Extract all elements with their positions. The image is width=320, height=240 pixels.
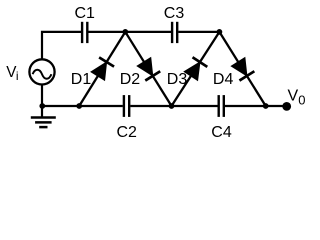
wire top-left from source to C1	[42, 32, 81, 59]
wire source bottom to ground node	[41, 85, 43, 106]
wire bottom rail C2 to C4 through node C	[130, 105, 217, 107]
diode D1	[79, 32, 125, 106]
svg-text:D3: D3	[167, 71, 188, 88]
svg-text:C3: C3	[164, 5, 185, 22]
svg-text:D1: D1	[71, 71, 92, 88]
capacitor C4	[219, 95, 224, 117]
svg-text:V: V	[288, 88, 299, 105]
ground	[31, 118, 56, 128]
wire top rail C3 to node B	[178, 31, 219, 33]
wire top rail C1 to C3 through node A	[88, 31, 171, 33]
diode D4	[219, 32, 265, 106]
wire bottom rail C4 to output terminal	[225, 105, 287, 107]
wire ground stub	[41, 106, 43, 117]
capacitor C3	[172, 22, 177, 43]
svg-text:0: 0	[298, 93, 305, 108]
svg-text:C2: C2	[117, 124, 138, 141]
svg-text:D2: D2	[120, 71, 141, 88]
capacitor C1	[82, 22, 87, 43]
ground junction dot	[39, 103, 45, 109]
svg-text:D4: D4	[213, 71, 234, 88]
output terminal dot	[282, 102, 291, 111]
node bottom junction dot B1	[76, 103, 82, 109]
wire bottom rail ground node to C2	[42, 105, 123, 107]
diode D2	[125, 32, 171, 106]
capacitor C2	[124, 95, 129, 117]
node bottom junction dot B2	[169, 103, 175, 109]
AC source Vi	[29, 59, 54, 84]
node B junction dot top rail	[217, 29, 223, 35]
svg-text:C4: C4	[211, 124, 232, 141]
node bottom junction dot B3	[263, 103, 269, 109]
diode D3	[172, 32, 220, 106]
svg-text:i: i	[16, 69, 19, 83]
node A junction dot top rail	[122, 29, 128, 35]
svg-text:C1: C1	[75, 5, 96, 22]
